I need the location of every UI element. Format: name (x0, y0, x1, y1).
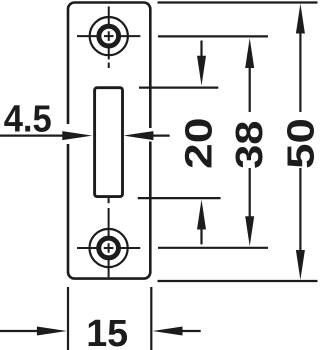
dimension 50: lower line (299, 168, 301, 251)
plate outline (strike plate body) (68, 3, 150, 279)
dimension 20: top arrow (down) (197, 56, 206, 86)
extension line: plate top (158, 1, 318, 3)
screw hole bottom: center cross (104, 243, 114, 253)
dimension 50: top arrow (up) (296, 4, 305, 34)
dimension 38: upper line (249, 67, 251, 112)
screw hole bottom: centerlines (77, 198, 140, 278)
extension line: slot bottom (138, 197, 221, 199)
dimension 4.5: leader line left (0, 135, 64, 137)
screw hole top: inner ring (99, 26, 119, 46)
dimension 38: lower line (249, 168, 251, 217)
screw hole bottom: outer circle (90, 229, 128, 267)
dimension 4.5: tail line right (152, 135, 169, 137)
extension line: bottom hole center (158, 247, 268, 249)
svg-text:20: 20 (179, 118, 221, 170)
svg-text:15: 15 (86, 313, 128, 350)
dimension 15: right extension line (150, 287, 152, 350)
dimension 15: leader line left (0, 330, 38, 332)
extension line: plate bottom (158, 280, 318, 282)
dimension 4.5: left arrow (62, 131, 92, 140)
screw hole top: center cross (104, 31, 114, 41)
dimension 15: left extension line (67, 287, 69, 350)
dimension 15: left arrow (right) (37, 327, 67, 336)
dimension 50: upper line (299, 33, 301, 113)
dimension 38: top arrow (up) (245, 38, 254, 68)
screw hole top: outer circle (90, 17, 128, 55)
dimension 4.5: right arrow (123, 131, 153, 140)
extension line: slot top (139, 86, 218, 88)
dimension 15: right arrow (left) (153, 327, 183, 336)
dimension 20: bottom arrow (up) (197, 200, 206, 230)
extension line: top hole center (158, 35, 268, 37)
screw hole top: centerlines (77, 6, 140, 68)
dimension 20: bottom arrow tail (200, 229, 202, 245)
slot (latch cutout) (95, 88, 123, 197)
dimension 50: bottom arrow (down) (296, 250, 305, 280)
dimension 15: tail line right (182, 330, 201, 332)
svg-text:4.5: 4.5 (4, 99, 52, 141)
screw hole bottom: inner ring (99, 238, 119, 258)
svg-text:50: 50 (281, 118, 320, 169)
svg-text:38: 38 (229, 121, 271, 169)
dimension 20: top arrow tail (200, 41, 202, 57)
dimension 38: bottom arrow (down) (245, 216, 254, 246)
